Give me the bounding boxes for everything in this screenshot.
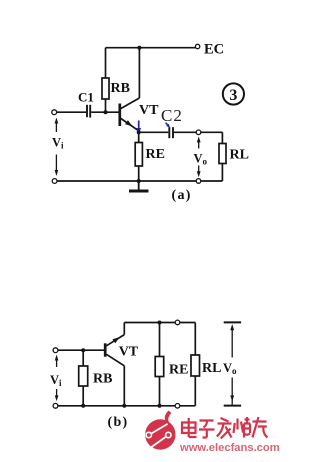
watermark text dian: [182, 418, 197, 437]
blue annotation tick at C2: [166, 123, 171, 129]
resistor RE (b): [155, 323, 164, 406]
wire top supply rail: [106, 47, 196, 49]
Vi arrow down (b): [55, 389, 59, 401]
wire C1 to base: [91, 111, 119, 113]
svg-text:RL: RL: [230, 148, 249, 163]
svg-text:RB: RB: [111, 81, 130, 96]
node junction dot base line: [104, 110, 108, 114]
wire emitter to C2: [139, 131, 169, 133]
Vo dimension arrow up (a): [197, 137, 201, 149]
terminal input bottom open circle: [52, 179, 57, 184]
node junction dot on top rail: [137, 46, 141, 50]
svg-text:VT: VT: [119, 345, 139, 360]
terminal input top circle (b): [53, 348, 58, 353]
blue annotation arrow at emitter node: [136, 121, 141, 135]
svg-text:3: 3: [229, 87, 237, 104]
node junction dot RB bottom (b): [81, 404, 85, 408]
resistor RE (a): [135, 132, 142, 181]
svg-text:VT: VT: [139, 103, 159, 118]
Vi arrow up (b): [55, 355, 59, 368]
svg-text:(b): (b): [108, 415, 129, 430]
terminal open circle bottom rail (b): [175, 404, 180, 409]
node junction dot RB top (b): [81, 348, 85, 352]
wire input to C1: [56, 111, 86, 113]
resistor RB (b): [79, 350, 88, 406]
wire bottom rail (a): [57, 180, 222, 182]
svg-text:C1: C1: [78, 90, 94, 105]
resistor RB: [102, 48, 109, 113]
svg-text:C2: C2: [161, 106, 183, 125]
terminal open circle top rail (b): [175, 320, 180, 325]
svg-text:EC: EC: [204, 42, 224, 58]
terminal input bottom circle (b): [53, 403, 58, 408]
node junction dot collector bottom (b): [122, 404, 126, 408]
transistor VT (b): [105, 323, 124, 406]
node junction dot RE bottom (b): [158, 404, 162, 408]
watermark text you: [253, 417, 268, 438]
svg-text:RB: RB: [93, 372, 112, 387]
terminal input top open circle: [52, 110, 57, 115]
Vo dimension arrow down (a): [197, 166, 201, 178]
terminal output bottom open circle: [196, 179, 201, 184]
Vo dimension indicator (b): [224, 322, 241, 405]
transistor VT (a): [120, 48, 140, 131]
resistor RL (b): [191, 323, 200, 406]
watermark text fa: [217, 418, 232, 439]
resistor RL (a): [219, 132, 226, 181]
circled 3: [223, 83, 244, 104]
Vi dimension arrow down: [55, 155, 59, 177]
wire input base line (b): [58, 349, 104, 351]
wire bottom rail (b): [58, 405, 195, 407]
svg-text:RE: RE: [146, 147, 165, 162]
svg-text:RE: RE: [169, 363, 188, 378]
terminal EC open circle: [195, 44, 199, 48]
watermark text shao: [234, 417, 251, 438]
wire C2 to output node: [174, 131, 222, 133]
watermark text zi: [199, 421, 215, 438]
svg-text:RL: RL: [202, 361, 221, 376]
svg-text:(a): (a): [172, 188, 192, 203]
svg-text:www.elecfans.com: www.elecfans.com: [179, 442, 280, 454]
node emitter junction dot: [137, 130, 141, 134]
node junction dot RE bottom: [137, 179, 141, 183]
capacitor C1: [87, 105, 90, 118]
node junction dot RE top (b): [158, 321, 162, 325]
watermark logo circle: [145, 411, 175, 450]
Vi dimension arrow up: [55, 118, 59, 133]
ground: [129, 181, 149, 191]
wire top rail (b): [124, 322, 195, 324]
terminal output top open circle: [196, 130, 201, 135]
capacitor C2: [169, 127, 173, 138]
